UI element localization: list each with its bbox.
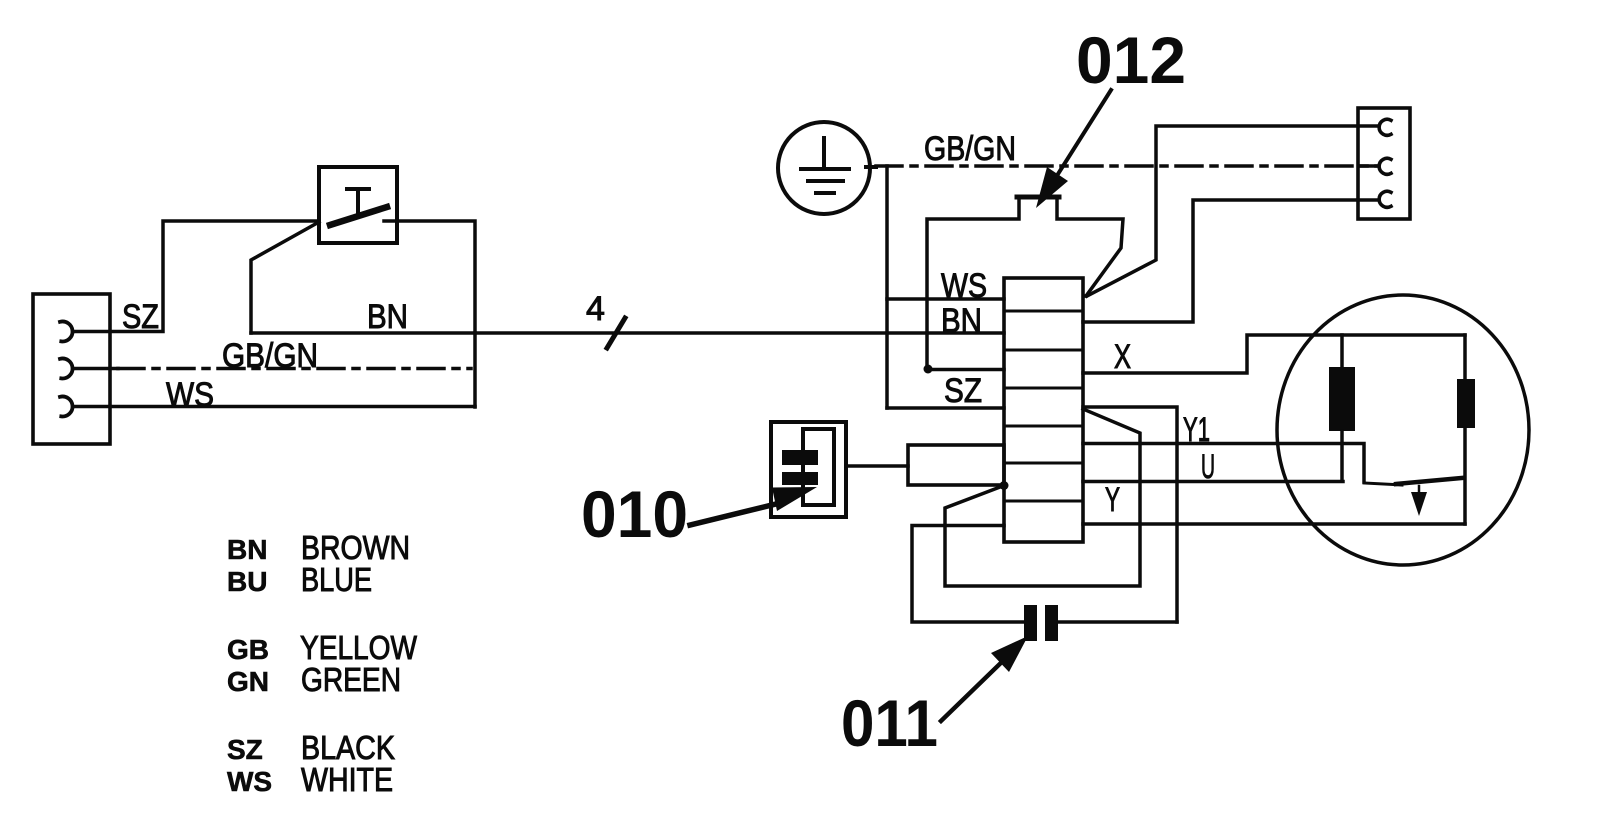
arrow leader 011	[941, 656, 1008, 721]
wire to terminal 3	[928, 368, 1004, 372]
wire pivot diagonal from T1	[251, 222, 319, 333]
thermostat switch T1 box	[319, 167, 397, 243]
wire Y1	[1083, 444, 1364, 483]
wire J2 pin2 stub	[1360, 164, 1378, 168]
svg-text:SZ: SZ	[944, 372, 982, 410]
svg-text:4: 4	[586, 290, 605, 328]
svg-text:WS: WS	[166, 376, 214, 414]
svg-text:Y1: Y1	[1183, 411, 1210, 449]
plug 010 inner bracket	[803, 429, 834, 505]
node harness split	[885, 166, 889, 408]
pin 1 of J2	[1379, 119, 1391, 135]
wire terminal 4 loop to terminal 6	[945, 409, 1140, 586]
svg-text:GB/GN: GB/GN	[222, 337, 318, 375]
pin 3 of J2	[1379, 191, 1391, 207]
wire U	[1083, 480, 1343, 484]
plug 010 housing	[771, 422, 846, 517]
svg-text:BLUE: BLUE	[301, 561, 372, 598]
svg-text:GB/GN: GB/GN	[924, 130, 1016, 168]
node junction dot	[924, 365, 933, 374]
svg-text:BU: BU	[227, 566, 267, 597]
svg-text:011: 011	[841, 686, 938, 760]
winding main (left) lead	[1340, 335, 1344, 367]
svg-text:GREEN: GREEN	[301, 661, 401, 698]
capacitor 011 plate left	[1024, 605, 1037, 641]
winding main (left)	[1329, 367, 1355, 431]
wire capacitor to terminal 4 branch	[1058, 620, 1177, 624]
thermal limiter 012 housing	[1017, 195, 1059, 200]
svg-text:WHITE: WHITE	[301, 761, 393, 798]
wire GB/GN dash-dot (right)	[876, 164, 1378, 168]
pin 2 of J2	[1379, 158, 1391, 174]
wire winding aux to Y	[1463, 428, 1467, 524]
centrifugal switch blade	[1364, 483, 1402, 485]
wire from T1 right contact	[384, 221, 475, 407]
svg-text:X: X	[1114, 338, 1131, 376]
svg-text:SZ: SZ	[122, 298, 159, 336]
wire WS from J1 pin 3	[74, 405, 475, 409]
svg-text:BN: BN	[227, 534, 267, 565]
wire 012 housing to terminal 1	[1084, 294, 1088, 298]
plug 010 contact upper	[782, 450, 818, 465]
pin 2 of J1	[60, 358, 73, 378]
terminal 5 sleeve	[908, 445, 1004, 485]
wire Y (left of terminal 7)	[912, 526, 1024, 623]
arrow leader 012	[1046, 90, 1111, 193]
wire winding to U	[1340, 431, 1344, 481]
harness slash mark	[607, 318, 625, 348]
wire WS to terminal 1	[887, 297, 1004, 301]
switch blade of T1	[330, 207, 387, 225]
wire J2 pin3 to terminal 2	[1083, 200, 1378, 322]
svg-text:BN: BN	[941, 302, 982, 340]
plug 010 contact lower	[782, 472, 818, 485]
wire harness (4-core)	[475, 331, 1004, 335]
svg-text:WS: WS	[227, 766, 272, 797]
wire Y (right of terminal 7)	[1083, 522, 1465, 526]
capacitor 011 plate right	[1045, 605, 1058, 641]
wire BN segment	[251, 331, 475, 335]
svg-text:GB: GB	[227, 634, 269, 665]
wire X	[1083, 335, 1465, 373]
wire GB/GN dash-dot (left)	[74, 367, 118, 371]
svg-text:Y: Y	[1105, 481, 1120, 519]
svg-text:012: 012	[1076, 23, 1186, 97]
winding aux (right) lead	[1463, 335, 1467, 379]
svg-text:GN: GN	[227, 666, 269, 697]
svg-text:SZ: SZ	[227, 734, 263, 765]
svg-text:U: U	[1201, 448, 1215, 486]
wire SZ to terminal 4	[887, 406, 1004, 410]
ground symbol	[778, 122, 870, 214]
arrow leader 010	[690, 503, 780, 525]
svg-text:WS: WS	[941, 267, 987, 305]
terminal strip X1	[1004, 278, 1083, 542]
svg-text:BN: BN	[367, 298, 408, 336]
connector J1 (left 3-pin)	[33, 294, 110, 444]
pin 3 of J1	[60, 396, 73, 416]
svg-text:010: 010	[581, 477, 688, 551]
pin 1 of J1	[60, 321, 73, 341]
centrifugal switch actuator arrow	[1418, 486, 1421, 492]
wire SZ from J1 pin 1	[74, 221, 319, 332]
winding aux (right)	[1457, 379, 1475, 428]
wire J2 pin1 to terminal 1	[1087, 126, 1378, 296]
motor M1 housing	[1277, 295, 1529, 565]
wire tick at ground	[866, 165, 876, 169]
T symbol of T1	[347, 189, 369, 215]
connector J2 (right 3-pin)	[1358, 108, 1410, 219]
wire terminal 4 to capacitor	[1083, 407, 1177, 622]
node junction dot terminal 6	[1000, 481, 1009, 490]
wire 010 to terminal 5	[846, 464, 908, 468]
